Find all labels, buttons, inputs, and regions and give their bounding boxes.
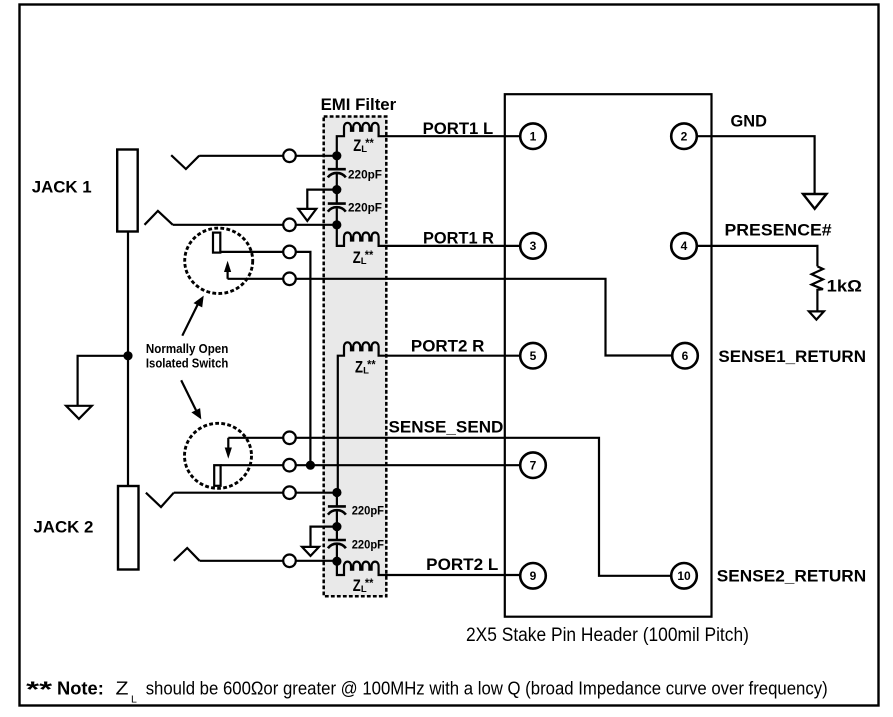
SW1 actuator arrow [224,261,231,279]
svg-text:**: ** [365,136,374,150]
ground (EMI lower) [302,547,319,556]
SW2 contact bar [214,465,220,486]
svg-text:PORT2 R: PORT2 R [411,337,485,356]
svg-text:220pF: 220pF [348,202,382,214]
svg-text:5: 5 [530,349,537,363]
svg-text:L: L [131,694,137,706]
contact circle sw1 bar [283,246,296,259]
wire JACK1 ring arm [145,211,173,225]
L4 value ZL** [353,576,374,595]
inductor L2 ZL (PORT1 R) [337,225,386,246]
capacitor C3 220pF [328,493,346,527]
wire switch2 bar contact to pin 7 [221,464,521,466]
L2 value ZL** [353,248,374,267]
svg-text:**: ** [365,576,374,590]
wire node RING1 to EMI [173,224,337,226]
wire node TIP1 to EMI [199,155,337,157]
svg-text:Z: Z [116,677,129,698]
wire pin2 to GND [697,136,815,194]
wire ground tap lower [311,527,337,547]
wire SENSE_SEND switch2 arm to pin10 [228,438,671,576]
ground GND symbol [803,194,827,209]
SW2 actuator arrow [225,438,232,459]
wire switch1 bar contact to pin7 net [220,252,310,465]
Normally Open Isolated Switch note [146,341,229,370]
pin 2 [671,123,697,149]
svg-text:1kΩ: 1kΩ [827,277,862,296]
svg-text:220pF: 220pF [352,539,384,551]
capacitor C4 220pF [328,527,346,562]
inductor L3 ZL (PORT2 R) [338,342,386,492]
ground (EMI upper) [298,209,316,221]
jack J3 JACK 2 body [118,486,139,570]
jack J2 JACK 1 body [117,150,138,232]
svg-text:Z: Z [353,577,361,595]
contact circle tip1 [283,150,296,163]
svg-text:Z: Z [353,137,361,155]
svg-text:9: 9 [530,569,537,583]
pin 9 [520,563,546,589]
junction ring1/C2/L2 [332,220,341,229]
junction pin7 net [306,461,315,470]
wire JACK1 tip arm [171,155,199,169]
switch SW2 isolated switch circle [185,423,252,488]
pin 7 [520,452,546,478]
wire PORT1 L [386,135,520,137]
svg-text:PORT1 R: PORT1 R [423,229,494,248]
svg-text:PORT2 L: PORT2 L [426,555,498,574]
junction tip1/L1/C1 [332,151,341,160]
wire node RING2 to EMI [200,560,337,562]
wire JACK2 ring arm [174,548,200,561]
wire switch1 arm contact to pin6 [228,279,673,356]
callout arrow to SW2 [181,380,201,419]
junction C1/C2/ground tap [332,185,341,194]
svg-text:**: ** [365,248,374,262]
pin 1 [520,123,546,149]
svg-text:Normally Open: Normally Open [146,341,229,356]
note text [26,677,828,706]
svg-text:GND: GND [731,111,767,130]
wire jack sleeve bus (JACK1 to JACK2) [127,232,129,487]
inductor L1 ZL (PORT1 L) [337,123,386,156]
svg-text:4: 4 [681,239,688,253]
svg-text:Z: Z [355,359,363,377]
contact circle ring2 [283,555,296,568]
svg-text:**: ** [367,358,376,372]
resistor R1 1k [812,266,823,311]
SW1 contact bar [213,233,220,253]
callout arrow to SW1 [182,296,203,336]
contact circle sw1 arm [283,273,296,286]
pin 10 [671,563,697,589]
pin 5 [520,343,546,369]
junction tip2/L3/C3 [332,488,341,497]
svg-text:10: 10 [677,569,691,583]
contact circle sw2 bar [283,459,296,472]
wire PORT1 R [386,245,520,247]
contact circle ring1 [283,219,296,232]
svg-text:2X5 Stake Pin Header (100mil P: 2X5 Stake Pin Header (100mil Pitch) [466,625,749,646]
ground chassis (left) [66,406,92,419]
capacitor C1 220pF [328,156,346,190]
junction sleeve bus to ground [123,351,132,360]
svg-text:1: 1 [530,130,537,144]
connector J1 2x5 stake pin header body [505,94,712,617]
svg-text:Note:: Note: [57,677,104,698]
L3 value ZL** [355,358,376,377]
svg-text:6: 6 [682,349,689,363]
EMI filter shield box [324,117,387,597]
svg-text:Isolated Switch: Isolated Switch [146,355,229,370]
wire JACK2 tip arm [146,493,174,507]
pin 6 [672,343,698,369]
svg-text:JACK 1: JACK 1 [32,177,92,196]
wire pin4 to resistor [697,246,818,267]
svg-text:EMI Filter: EMI Filter [321,95,397,114]
svg-text:PORT1 L: PORT1 L [423,119,494,138]
contact circle tip2 [283,486,296,499]
pin 3 [520,233,546,259]
svg-text:SENSE_SEND: SENSE_SEND [389,418,504,437]
wire node TIP2 to EMI [174,492,337,494]
switch SW1 isolated switch circle [185,228,253,293]
wire PORT2 L [386,574,520,576]
svg-text:**: ** [26,677,53,702]
svg-text:7: 7 [530,459,537,473]
wire sleeve to ground [78,356,128,406]
inductor L4 ZL (PORT2 L) [337,561,386,575]
capacitor C2 220pF [328,190,346,225]
pin 4 [671,233,697,259]
svg-text:3: 3 [530,239,537,253]
L1 value ZL** [353,136,374,155]
wire PORT2 R [386,355,520,357]
svg-text:2: 2 [681,130,688,144]
ground (below R1) [809,311,824,319]
junction C3/C4/ground tap [332,522,341,531]
svg-text:220pF: 220pF [348,169,382,181]
svg-text:SENSE1_RETURN: SENSE1_RETURN [718,347,866,366]
svg-text:SENSE2_RETURN: SENSE2_RETURN [717,566,866,585]
wire ground tap upper [307,190,337,209]
svg-text:220pF: 220pF [352,506,384,518]
svg-text:JACK 2: JACK 2 [33,517,93,536]
contact circle sw2 arm (SENSE_SEND) [283,432,296,445]
svg-text:should be 600Ωor greater @ 100: should be 600Ωor greater @ 100MHz with a… [146,678,828,698]
svg-text:Z: Z [353,249,361,267]
junction ring2/C4/L4 [332,557,341,566]
svg-text:PRESENCE#: PRESENCE# [725,220,833,239]
